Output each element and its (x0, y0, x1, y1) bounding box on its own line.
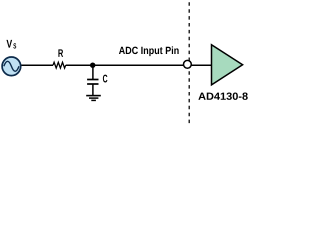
label Vs (6, 40, 12, 48)
wire: source to resistor (20, 64, 53, 66)
resistor R (53, 62, 66, 68)
wire: junction down to capacitor (92, 65, 94, 79)
voltage source Vs (2, 57, 21, 76)
dashed ADC boundary line (188, 2, 190, 126)
label ADC Input Pin (119, 46, 179, 56)
label AD4130-8 (198, 92, 247, 99)
op-amp buffer U1 (212, 45, 243, 85)
sine wave (4, 61, 19, 71)
label C (103, 75, 108, 83)
wire: capacitor to ground (92, 84, 94, 96)
junction dot (90, 62, 95, 67)
capacitor C plates (87, 79, 98, 81)
wire: resistor to buffer input (66, 64, 212, 66)
node: ADC input pin (open circle) (184, 60, 192, 68)
label R (58, 49, 63, 57)
ground (86, 95, 101, 97)
